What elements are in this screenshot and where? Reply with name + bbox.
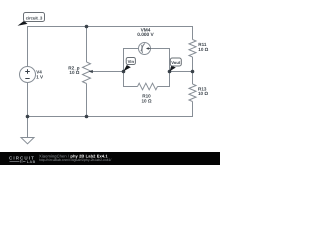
flag circuit_3 bbox=[18, 13, 45, 26]
ground bbox=[21, 138, 34, 144]
footer bar bbox=[0, 152, 220, 165]
wire right rail lower bbox=[192, 102, 194, 118]
svg-text:10 Ω: 10 Ω bbox=[141, 98, 151, 103]
svg-text:Vin: Vin bbox=[128, 59, 135, 64]
junction left rail at bottom wire bbox=[26, 115, 30, 119]
node flag Vin bbox=[123, 58, 135, 72]
svg-text:Vout: Vout bbox=[171, 60, 181, 65]
wire inner loop bottom left bbox=[123, 86, 138, 88]
svg-text:http://circuitlab.com/c/4g6ah5: http://circuitlab.com/c/4g6ah5/phy-2b-la… bbox=[39, 158, 111, 162]
svg-text:10 Ω: 10 Ω bbox=[198, 47, 208, 52]
svg-text:10 Ω: 10 Ω bbox=[69, 70, 79, 75]
wire right rail upper bbox=[192, 26, 194, 40]
resistor R11 bbox=[189, 40, 196, 58]
node flag Vout bbox=[170, 58, 182, 71]
wire bottom horizontal bbox=[27, 116, 193, 118]
voltmeter VM4 bbox=[139, 43, 151, 55]
junction node Vin bbox=[122, 70, 126, 74]
wire top horizontal bbox=[27, 26, 193, 28]
svg-text:0.000 V: 0.000 V bbox=[137, 32, 154, 38]
wire inner loop top left bbox=[123, 48, 139, 50]
svg-text:LAB: LAB bbox=[27, 160, 36, 164]
wire Vout node to right rail bbox=[170, 71, 194, 73]
wire inner loop right vertical bbox=[169, 48, 171, 87]
svg-text:1 V: 1 V bbox=[36, 74, 44, 79]
footer logo capacitor ticks bbox=[21, 160, 23, 163]
wire right rail middle bbox=[192, 57, 194, 84]
potentiometer R2_p bbox=[83, 62, 91, 84]
wire wiper to Vin bbox=[90, 71, 125, 73]
wire R2_p bottom stem bbox=[86, 84, 88, 118]
resistor R13 bbox=[189, 84, 196, 102]
junction node Vout bbox=[168, 70, 172, 74]
svg-text:10 Ω: 10 Ω bbox=[198, 91, 208, 96]
footer logo capacitor line left bbox=[10, 160, 20, 162]
wire inner loop left vertical bbox=[123, 48, 125, 87]
wire inner loop top right bbox=[151, 48, 171, 50]
footer logo capacitor line right bbox=[23, 160, 26, 162]
voltage source V4 bbox=[20, 67, 36, 83]
wire inner loop bottom right bbox=[158, 86, 171, 88]
svg-text:circuit_3: circuit_3 bbox=[26, 15, 43, 20]
wire left rail upper bbox=[27, 26, 29, 67]
wire R2_p top stem bbox=[86, 26, 88, 62]
junction bottom of R2_p bbox=[85, 115, 89, 119]
wire left rail lower bbox=[27, 83, 29, 138]
junction top of R2_p bbox=[85, 25, 89, 29]
junction right rail Vout link bbox=[191, 70, 195, 74]
wiper arrow R2_p bbox=[89, 70, 93, 73]
resistor R10 bbox=[138, 83, 158, 90]
